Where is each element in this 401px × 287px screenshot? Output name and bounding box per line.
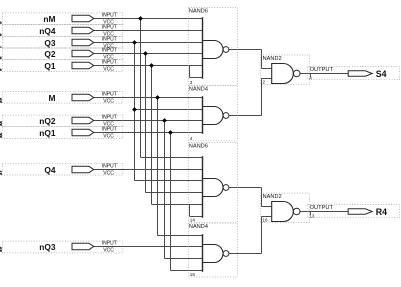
svg-text:nQ1: nQ1 bbox=[39, 128, 56, 138]
svg-text:4: 4 bbox=[190, 136, 193, 141]
svg-text:VCC: VCC bbox=[103, 133, 114, 139]
svg-text:12: 12 bbox=[0, 133, 4, 139]
svg-text:INPUT: INPUT bbox=[102, 37, 117, 43]
svg-text:S4: S4 bbox=[376, 69, 387, 79]
svg-text:15: 15 bbox=[190, 272, 196, 277]
svg-text:VCC: VCC bbox=[103, 247, 114, 253]
svg-text:5: 5 bbox=[0, 21, 4, 24]
svg-text:VCC: VCC bbox=[103, 98, 114, 104]
svg-text:14: 14 bbox=[190, 217, 196, 222]
svg-text:INPUT: INPUT bbox=[102, 92, 117, 98]
svg-text:INPUT: INPUT bbox=[102, 241, 117, 247]
svg-text:6: 6 bbox=[0, 33, 4, 36]
svg-text:nQ3: nQ3 bbox=[39, 242, 56, 252]
svg-text:2: 2 bbox=[263, 79, 266, 84]
svg-text:17: 17 bbox=[0, 170, 4, 176]
svg-text:INPUT: INPUT bbox=[102, 60, 117, 66]
svg-text:VCC: VCC bbox=[103, 170, 114, 176]
svg-text:VCC: VCC bbox=[103, 66, 114, 72]
svg-text:INPUT: INPUT bbox=[102, 127, 117, 133]
svg-text:Q2: Q2 bbox=[44, 49, 56, 59]
svg-text:3: 3 bbox=[190, 80, 193, 85]
svg-text:NAND4: NAND4 bbox=[189, 87, 208, 93]
svg-text:OUTPUT: OUTPUT bbox=[310, 205, 334, 211]
svg-text:OUTPUT: OUTPUT bbox=[310, 67, 334, 73]
svg-text:M: M bbox=[49, 93, 56, 103]
svg-text:9: 9 bbox=[0, 68, 4, 71]
svg-text:nM: nM bbox=[43, 14, 55, 24]
svg-text:nQ4: nQ4 bbox=[39, 26, 56, 36]
svg-text:NAND2: NAND2 bbox=[263, 56, 282, 62]
svg-text:INPUT: INPUT bbox=[102, 13, 117, 19]
svg-text:INPUT: INPUT bbox=[102, 25, 117, 31]
svg-text:Q3: Q3 bbox=[44, 38, 56, 48]
svg-text:NAND2: NAND2 bbox=[263, 194, 282, 200]
svg-text:R4: R4 bbox=[376, 207, 387, 217]
svg-text:4: 4 bbox=[309, 76, 312, 81]
svg-text:INPUT: INPUT bbox=[102, 48, 117, 54]
svg-text:INPUT: INPUT bbox=[102, 115, 117, 121]
svg-text:INPUT: INPUT bbox=[102, 164, 117, 170]
svg-text:Q1: Q1 bbox=[44, 61, 56, 71]
svg-text:NAND4: NAND4 bbox=[189, 224, 208, 230]
svg-text:13: 13 bbox=[309, 214, 315, 219]
svg-text:19: 19 bbox=[0, 247, 4, 253]
svg-text:11: 11 bbox=[0, 121, 4, 127]
svg-text:nQ2: nQ2 bbox=[39, 116, 56, 126]
svg-text:Q4: Q4 bbox=[44, 165, 56, 175]
svg-text:8: 8 bbox=[0, 56, 4, 59]
svg-text:NAND6: NAND6 bbox=[189, 8, 208, 14]
svg-text:NAND6: NAND6 bbox=[189, 143, 208, 149]
svg-text:16: 16 bbox=[263, 217, 269, 222]
svg-text:10: 10 bbox=[0, 98, 4, 104]
